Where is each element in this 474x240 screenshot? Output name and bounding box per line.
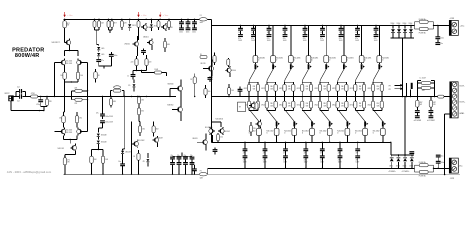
svg-text:NJL1302: NJL1302	[66, 63, 72, 65]
svg-text:RE: RE	[359, 86, 361, 88]
resistor R12	[64, 155, 66, 158]
capacitor C11	[131, 74, 136, 75]
transistor T5	[77, 129, 82, 134]
svg-text:RE: RE	[324, 103, 326, 105]
svg-text:0R22: 0R22	[350, 105, 354, 107]
svg-text:4K7: 4K7	[114, 22, 117, 24]
svg-text:RE: RE	[377, 86, 379, 88]
fuse loop bottom	[415, 165, 420, 168]
resistor RE24 pair	[301, 97, 303, 102]
svg-text:100: 100	[231, 90, 234, 92]
capacitor C14 main filter	[304, 25, 306, 27]
junction	[121, 19, 122, 20]
junction	[398, 168, 399, 169]
capacitor C8	[40, 97, 42, 100]
svg-text:RE: RE	[377, 103, 379, 105]
svg-text:1N54: 1N54	[397, 23, 401, 25]
power flag +Vcc 2	[138, 12, 140, 15]
transistor T16	[257, 122, 261, 126]
svg-text:NJL1302: NJL1302	[58, 148, 64, 150]
junction	[185, 174, 186, 175]
connector bar	[411, 83, 413, 89]
diode D2x	[404, 155, 406, 157]
transistor Q1 output NPN	[254, 25, 256, 55]
wire	[95, 29, 100, 31]
svg-text:47u: 47u	[267, 38, 270, 40]
svg-text:1N54: 1N54	[409, 23, 413, 25]
svg-text:NJL1302: NJL1302	[66, 61, 72, 63]
inductor L2 loop	[110, 91, 112, 97]
resistor R20	[146, 55, 148, 59]
svg-text:d-POWER: d-POWER	[427, 120, 435, 122]
svg-text:+ Vcc: + Vcc	[67, 15, 73, 17]
svg-text:RE: RE	[359, 103, 361, 105]
diode D2x	[391, 155, 393, 157]
svg-text:JAN - 2003 - a0500eps@gmail.co: JAN - 2003 - a0500eps@gmail.com	[7, 170, 52, 174]
wire output bus	[212, 96, 412, 98]
svg-text:220: 220	[149, 61, 152, 63]
junction	[411, 168, 412, 169]
svg-text:100: 100	[208, 91, 211, 93]
svg-text:+POWER+: +POWER+	[402, 171, 410, 173]
svg-text:0R22: 0R22	[297, 105, 301, 107]
svg-text:RE: RE	[270, 86, 272, 88]
junction	[304, 25, 305, 26]
svg-text:4R7: 4R7	[420, 102, 423, 104]
svg-text:ZD15: ZD15	[132, 25, 136, 27]
junction	[410, 25, 411, 26]
resistor RE21 pair	[248, 97, 250, 102]
svg-text:1N54: 1N54	[403, 23, 407, 25]
svg-text:47u: 47u	[339, 38, 342, 40]
capacitor C17	[437, 164, 439, 169]
svg-text:330: 330	[141, 111, 144, 113]
svg-text:NJL3281 T1: NJL3281 T1	[52, 42, 61, 44]
resistor R14	[102, 150, 104, 157]
capacitor C30 rail bypass	[181, 19, 183, 21]
resistor R22	[138, 96, 140, 99]
transistor T7	[143, 25, 147, 29]
junction	[111, 19, 112, 20]
wire	[390, 142, 392, 155]
wire	[206, 173, 208, 175]
junction	[433, 168, 434, 169]
capacitor C13	[193, 171, 195, 174]
svg-text:NJL1302: NJL1302	[223, 131, 229, 133]
capacitor C10 main filter	[240, 25, 242, 27]
resistor RE4 pair	[301, 80, 303, 82]
resistor RE2 pair	[266, 80, 268, 82]
junction	[340, 25, 341, 26]
svg-text:0R22: 0R22	[279, 88, 283, 90]
svg-text:4K7: 4K7	[67, 23, 70, 25]
resistor RE6 pair	[337, 80, 339, 82]
wire signal	[38, 96, 111, 98]
junction	[402, 96, 403, 97]
svg-text:100n: 100n	[440, 37, 444, 39]
resistor R4	[95, 69, 97, 72]
svg-text:RE: RE	[270, 103, 272, 105]
resistor R34	[217, 133, 219, 134]
resistor R1	[64, 19, 66, 21]
svg-text:100n 250V: 100n 250V	[105, 116, 114, 118]
transistor Q38 output PNP	[374, 110, 383, 121]
svg-text:RE: RE	[341, 103, 343, 105]
inductor L1 loop	[417, 81, 419, 97]
wire tail join	[65, 81, 78, 83]
junction	[172, 174, 173, 175]
svg-text:d-POWER: d-POWER	[414, 120, 422, 122]
svg-text:+POWER+: +POWER+	[388, 171, 396, 173]
wire	[64, 111, 65, 113]
transistor Q37 output PNP	[356, 110, 365, 121]
resistor RE25 pair	[319, 97, 321, 102]
junction	[392, 25, 393, 26]
svg-text:100: 100	[80, 75, 83, 77]
fuse F3	[419, 20, 428, 23]
svg-text:47u: 47u	[96, 112, 99, 114]
svg-text:220: 220	[131, 61, 134, 63]
svg-text:2N5551: 2N5551	[124, 44, 130, 46]
svg-text:47u: 47u	[238, 38, 241, 40]
diode D8	[147, 153, 149, 158]
junction	[268, 25, 269, 26]
resistor RE8 pair	[372, 80, 374, 82]
svg-text:47u: 47u	[303, 38, 306, 40]
wire	[391, 154, 414, 156]
capacitor C13 main filter	[284, 25, 286, 27]
svg-text:2K2: 2K2	[142, 129, 145, 131]
svg-text:0R22: 0R22	[368, 88, 372, 90]
transistor Q33 output PNP	[285, 110, 294, 121]
capacitor C16 main filter	[340, 25, 342, 27]
transistor Q8 output NPN	[378, 25, 380, 55]
zobel RC	[430, 97, 432, 101]
diode D2 LED	[96, 33, 98, 44]
resistor R33 inline	[438, 95, 444, 98]
svg-text:1n: 1n	[127, 75, 129, 77]
resistor R18	[164, 38, 166, 41]
diode D7	[133, 80, 135, 84]
wire bases	[54, 62, 59, 64]
junction	[404, 168, 405, 169]
resistor R19	[136, 56, 138, 59]
transistor Q31 output PNP	[250, 110, 259, 121]
fuse F4	[419, 27, 428, 30]
svg-text:10u: 10u	[441, 156, 444, 158]
junction	[433, 25, 434, 26]
svg-text:2u2: 2u2	[17, 87, 20, 89]
svg-text:1N4148: 1N4148	[101, 141, 107, 143]
resistor Rtop94.5	[94, 19, 96, 21]
resistor R13	[91, 150, 93, 157]
svg-text:0R22: 0R22	[314, 88, 318, 90]
resistor R16	[157, 21, 160, 27]
junction	[417, 96, 418, 97]
resistor RE3 pair	[284, 80, 286, 82]
svg-text:47u: 47u	[320, 38, 323, 40]
svg-text:BD140: BD140	[231, 70, 236, 72]
svg-text:F2: F2	[200, 170, 202, 172]
capacitor Cdecouple	[357, 142, 359, 148]
capacitor Cdecouple	[264, 142, 266, 148]
resistor RE26 pair	[337, 97, 339, 102]
junction	[91, 174, 92, 175]
svg-text:47u: 47u	[355, 38, 358, 40]
junction	[253, 25, 254, 26]
capacitor C10	[100, 120, 105, 121]
svg-text:1N54: 1N54	[391, 23, 395, 25]
capacitor C16	[409, 151, 414, 152]
svg-text:MJE340: MJE340	[168, 83, 174, 85]
resistor R21	[155, 71, 162, 74]
junction	[131, 174, 132, 175]
svg-text:0R22: 0R22	[279, 105, 283, 107]
svg-text:0R22: 0R22	[332, 105, 336, 107]
capacitor Cdecouple	[244, 142, 246, 148]
svg-text:1K5: 1K5	[141, 100, 144, 102]
power flag +Vcc 3	[159, 12, 161, 15]
svg-text:BD681: BD681	[193, 138, 198, 140]
resistor R5	[31, 95, 38, 98]
junction	[375, 25, 376, 26]
svg-text:100n: 100n	[179, 31, 183, 33]
resistor R28	[249, 125, 252, 132]
capacitor C32 rail bypass	[194, 19, 196, 21]
transistor Q34 output PNP	[303, 110, 312, 121]
svg-text:MJE350: MJE350	[167, 104, 173, 106]
svg-text:1N54: 1N54	[396, 165, 400, 167]
svg-text:OUT-: OUT-	[459, 86, 464, 88]
svg-text:1N4148: 1N4148	[101, 134, 107, 136]
connector -Vcc power	[449, 158, 458, 173]
svg-text:1N54: 1N54	[403, 165, 407, 167]
svg-text:NJL3281D: NJL3281D	[216, 119, 224, 121]
transistor T3	[77, 60, 82, 65]
junction	[160, 19, 161, 20]
junction	[398, 154, 399, 155]
transistor Q35 output PNP	[321, 110, 330, 121]
resistor Rtop111.8	[111, 19, 113, 21]
fuse F2	[199, 173, 207, 176]
junction	[108, 19, 109, 20]
resistor R9	[110, 97, 112, 99]
svg-text:47u: 47u	[283, 38, 286, 40]
capacitor C18 main filter	[375, 25, 377, 27]
transistor T10	[149, 40, 153, 44]
wire VAS rail	[211, 25, 213, 142]
svg-text:680: 680	[167, 44, 170, 46]
svg-text:RE: RE	[288, 103, 290, 105]
svg-text:BD139: BD139	[201, 63, 206, 65]
svg-text:470: 470	[67, 159, 70, 161]
junction	[122, 174, 123, 175]
svg-text:100n: 100n	[186, 31, 190, 33]
svg-text:470p: 470p	[36, 104, 40, 106]
svg-text:+ Vcc: + Vcc	[163, 15, 169, 17]
capacitor C15 main filter	[322, 25, 324, 27]
capacitor C5	[109, 54, 114, 55]
svg-text:2N5401: 2N5401	[143, 37, 149, 39]
svg-text:0R22: 0R22	[368, 105, 372, 107]
resistor R7 feedback	[75, 89, 82, 92]
transistor Q3 output NPN	[290, 25, 292, 55]
capacitor Cdecouple	[321, 142, 323, 148]
svg-text:L1 10uH: L1 10uH	[420, 78, 427, 80]
diode D3 LED	[98, 50, 100, 52]
resistor R3	[76, 72, 79, 79]
wire	[405, 83, 407, 97]
junction	[102, 174, 103, 175]
junction	[98, 19, 99, 20]
wire	[220, 122, 222, 127]
resistor RE28 pair	[372, 97, 374, 102]
svg-text:INPUT: INPUT	[5, 93, 10, 95]
svg-text:2K2: 2K2	[59, 118, 62, 120]
svg-text:0R22: 0R22	[350, 88, 354, 90]
resistor R35	[194, 74, 196, 77]
svg-text:RE: RE	[324, 86, 326, 88]
resistor R8 feedback	[75, 98, 82, 101]
transistor Q2 output NPN	[272, 25, 274, 55]
capacitor C9	[102, 97, 104, 114]
wire	[109, 29, 112, 31]
svg-text:4R7: 4R7	[433, 102, 436, 104]
svg-text:220: 220	[253, 128, 256, 130]
wire diff top	[65, 50, 78, 52]
resistor R24	[200, 56, 207, 59]
junction	[94, 19, 95, 20]
resistor R2	[63, 72, 66, 79]
capacitor C11 main filter	[253, 25, 255, 27]
junction	[181, 19, 182, 20]
svg-text:RE: RE	[253, 86, 255, 88]
svg-text:47u: 47u	[374, 38, 377, 40]
svg-text:0R22: 0R22	[332, 88, 336, 90]
capacitor C17 main filter	[357, 25, 359, 27]
svg-text:RE: RE	[288, 86, 290, 88]
zobel RC	[416, 97, 418, 101]
thermal box	[238, 102, 246, 111]
transistor T8	[163, 25, 167, 29]
wire	[92, 149, 104, 151]
resistor R31	[138, 150, 140, 153]
diode D2x	[397, 155, 399, 157]
svg-text:BD249: BD249	[158, 138, 163, 140]
junction	[187, 19, 188, 20]
resistor R6	[46, 97, 48, 100]
svg-text:OUT+: OUT+	[459, 102, 466, 104]
transistor T15	[220, 129, 225, 134]
resistor RE7 pair	[354, 80, 356, 82]
transistor T4	[61, 129, 66, 134]
svg-text:47u: 47u	[251, 38, 254, 40]
junction	[64, 174, 65, 175]
wire input return	[10, 101, 12, 110]
resistor R17	[168, 19, 170, 21]
capacitor Cdecouple	[285, 142, 287, 148]
capacitor C7	[19, 94, 20, 99]
svg-text:1N4148: 1N4148	[125, 152, 131, 154]
capacitor C30 bypass	[437, 25, 439, 36]
junction	[391, 168, 392, 169]
transistor Q5 output NPN	[325, 25, 327, 55]
svg-text:NJL1302: NJL1302	[66, 132, 72, 134]
wire -V bus left	[63, 173, 199, 175]
resistor RE27 pair	[354, 97, 356, 102]
junction	[138, 174, 139, 175]
capacitor C18	[208, 77, 213, 78]
wire	[212, 135, 214, 142]
svg-text:220: 220	[220, 137, 223, 139]
power flag +Vcc 1	[64, 12, 66, 15]
capacitor C14	[213, 149, 218, 150]
resistor R11	[76, 112, 78, 116]
capacitor Cdecouple	[339, 142, 341, 148]
svg-text:0R22: 0R22	[261, 88, 265, 90]
resistor Rtop108.5	[108, 19, 110, 21]
wire	[173, 155, 193, 157]
junction	[438, 168, 439, 169]
wire	[404, 97, 406, 155]
svg-text:0R22: 0R22	[314, 105, 318, 107]
svg-text:100n: 100n	[192, 31, 196, 33]
wire	[63, 136, 65, 140]
wire fuse loop top	[415, 22, 420, 26]
wire	[434, 167, 450, 169]
junction	[64, 19, 65, 20]
capacitor C12 main filter	[268, 25, 270, 27]
junction	[168, 19, 169, 20]
svg-text:0R22: 0R22	[297, 88, 301, 90]
wire +V bus left	[63, 18, 199, 20]
resistor R29	[139, 122, 141, 126]
resistor R15	[137, 21, 140, 27]
transistor T2	[61, 60, 66, 65]
transistor T13	[251, 103, 255, 107]
svg-text:100n: 100n	[114, 55, 118, 57]
capacitor C4	[98, 56, 100, 59]
resistor R26	[204, 89, 207, 96]
capacitor C11b	[141, 50, 146, 51]
svg-text:NJL1302: NJL1302	[66, 130, 72, 132]
resistor R27	[227, 88, 230, 95]
svg-text:10u: 10u	[440, 43, 443, 45]
svg-text:47u: 47u	[101, 60, 104, 62]
resistor R32	[421, 86, 430, 89]
diode D9	[129, 19, 131, 23]
diode D2x	[411, 155, 413, 157]
wire	[82, 90, 87, 92]
resistor R23	[137, 108, 140, 115]
resistor R25	[214, 53, 216, 56]
svg-text:RE: RE	[341, 86, 343, 88]
wire	[72, 90, 75, 92]
capacitor Cdecouple	[305, 142, 307, 148]
inductor L1	[421, 82, 430, 85]
svg-text:RE: RE	[306, 103, 308, 105]
svg-text:NJL1302: NJL1302	[138, 140, 144, 142]
fuse F1	[199, 18, 207, 21]
wire	[412, 96, 438, 98]
wire earth	[208, 174, 460, 176]
resistor R10	[63, 112, 65, 116]
junction	[240, 25, 241, 26]
wire gnd to block	[444, 114, 446, 175]
wire	[54, 131, 59, 133]
transistor Q36 output PNP	[339, 110, 348, 121]
wire gnd stub	[41, 106, 47, 108]
